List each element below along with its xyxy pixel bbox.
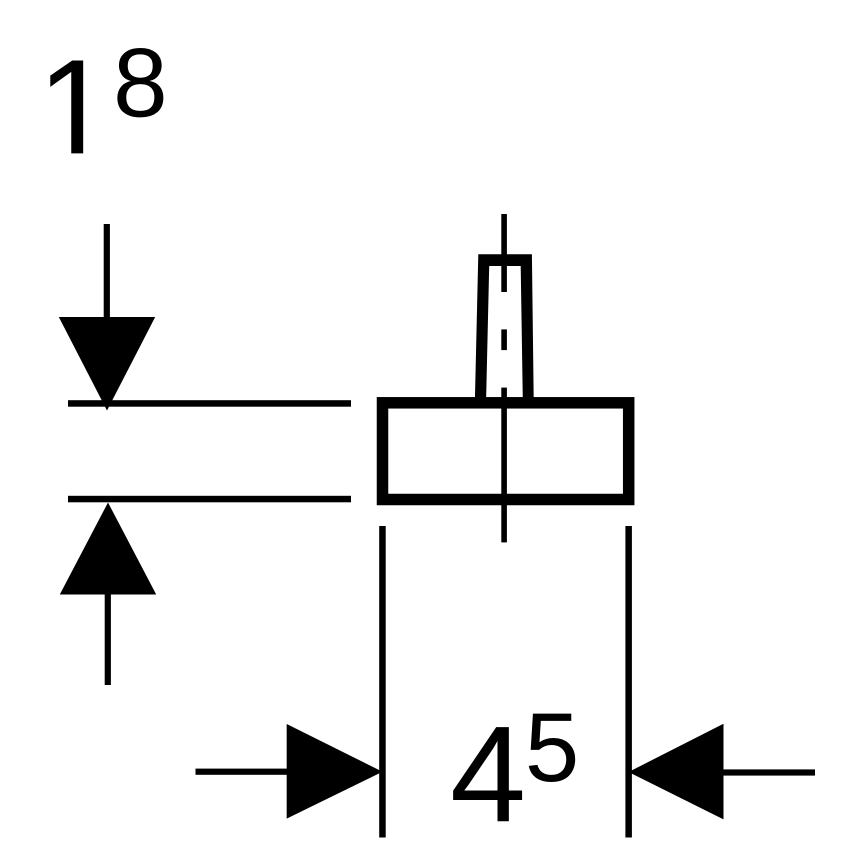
part body rectangle: [383, 403, 629, 500]
dimension arrow left-pointing: [629, 724, 724, 820]
dimension line bottom (aligned with body bottom): [68, 496, 351, 503]
centerline long dash bottom (through body): [501, 388, 507, 543]
top dimension leader line (vertical, above down arrow): [104, 224, 110, 318]
dimension arrow up: [60, 503, 156, 595]
dimension value 45 (superscript 5): [529, 714, 575, 782]
dimension arrow right-pointing: [287, 724, 383, 819]
dimension value 18 (superscript 8): [117, 48, 163, 117]
left dimension tail line: [196, 769, 288, 775]
dimension value 45 (main digit 4): [453, 727, 522, 821]
part stem (tapered tube): [475, 254, 534, 400]
dimension arrow down: [59, 317, 155, 411]
centerline long dash top: [501, 214, 507, 292]
right dimension tail line: [724, 769, 816, 775]
extension line right (bottom dimension): [625, 526, 632, 838]
extension line left (bottom dimension): [379, 526, 386, 838]
centerline short dash: [501, 329, 507, 350]
dimension line top (aligned with body top): [68, 400, 351, 407]
dimension value 18 (main digit 1): [50, 61, 83, 154]
bottom dimension leader line (vertical, below up arrow): [105, 595, 111, 686]
